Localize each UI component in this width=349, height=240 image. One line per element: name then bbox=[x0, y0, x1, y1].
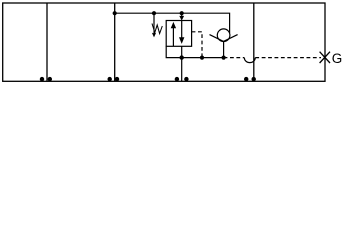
port dot pair at valve outlet bbox=[175, 77, 179, 81]
section divider line 3 bbox=[253, 3, 255, 81]
valve V1 inlet arrowhead bbox=[179, 16, 184, 21]
check valve CV1 ball bbox=[217, 29, 230, 42]
port dot pair at divider 1 bbox=[40, 77, 44, 81]
wire: hop over divider bbox=[244, 58, 255, 63]
valve V1 adjustment arrow bbox=[152, 25, 156, 37]
junction dot node at pilot tap bbox=[152, 11, 156, 15]
manifold block outline bbox=[3, 3, 325, 81]
wire: spring drain L line bbox=[166, 46, 182, 57]
wire: dashed gauge line to G port bbox=[255, 57, 321, 59]
wire: dashed pilot from valve right edge bbox=[192, 32, 202, 58]
valve V1 spring bbox=[152, 24, 162, 34]
wire: dashed gauge line left of hop bbox=[224, 57, 245, 59]
junction dot node at divider 2 bbox=[113, 11, 117, 15]
port dot pair at divider 3 bbox=[244, 77, 248, 81]
valve V1 body square bbox=[166, 21, 191, 47]
junction dot node at pilot / drain rail bbox=[200, 56, 204, 60]
svg-text:G: G bbox=[332, 51, 343, 66]
check valve CV1 seat bbox=[210, 35, 238, 42]
valve V1 bypass flow arrow (up) bbox=[171, 22, 176, 46]
wire: inlet drop into valve V1 bbox=[181, 13, 183, 17]
port dot pair at divider 2 bbox=[108, 77, 112, 81]
wire: drain rail to check valve bbox=[182, 57, 224, 59]
junction dot node at valve inlet bbox=[180, 11, 184, 15]
wire: pilot drop to adjustment arrow bbox=[153, 13, 155, 25]
section divider line 2 bbox=[114, 3, 116, 81]
wire: valve outlet down to bottom port bbox=[181, 46, 183, 81]
section divider line 1 bbox=[46, 3, 48, 81]
plugged gauge port X symbol bbox=[320, 52, 330, 63]
wire: top supply line with drop to check valve bbox=[115, 13, 230, 33]
wire: check valve to drain rail bbox=[223, 41, 225, 57]
junction dot node at check valve / drain rail bbox=[222, 56, 226, 60]
valve V1 main flow arrow (down) bbox=[179, 21, 184, 44]
junction dot node at drain rail / outlet bbox=[180, 55, 184, 59]
